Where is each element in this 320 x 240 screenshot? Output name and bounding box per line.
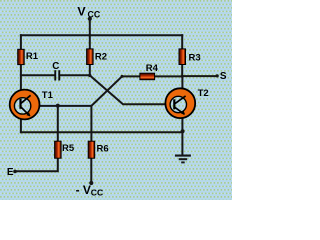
svg-text:R6: R6: [97, 144, 109, 155]
wire: node B diagonal to T1 base line: [40, 76, 122, 106]
resistor R2: [87, 49, 94, 65]
VCC label: [77, 5, 100, 20]
-VCC label: [76, 183, 104, 198]
wire: T2 collector lead: [181, 76, 183, 88]
wire: VCC stub down to top rail: [89, 19, 91, 35]
junction node B (R4 / diagonal): [121, 75, 124, 78]
junction node A (R2 / C / diagonal): [88, 74, 91, 77]
wire: R1 top lead: [20, 35, 22, 49]
wire: R2 top lead: [89, 35, 91, 49]
ground: [175, 156, 191, 163]
svg-text:T1: T1: [42, 90, 54, 101]
wire: R6 top lead from base corner: [90, 106, 92, 141]
svg-text:R2: R2: [95, 52, 107, 63]
wire: R5 bottom lead: [15, 158, 58, 171]
svg-text:R1: R1: [26, 51, 39, 62]
junction: R5 on T1 base line: [56, 104, 60, 108]
resistor R1: [18, 49, 25, 64]
terminal E dot: [13, 170, 17, 174]
svg-text:V: V: [77, 5, 86, 19]
svg-text:T2: T2: [198, 88, 209, 99]
wire: node A diagonal to T2 base line: [90, 75, 166, 104]
svg-text:S: S: [220, 71, 227, 82]
wire: T2 emitter lead to ground: [181, 119, 183, 155]
wire: R4 right lead to collector node of T2: [155, 75, 183, 77]
resistor R5: [55, 141, 62, 158]
wire: output line to S: [182, 75, 216, 77]
capacitor C: [54, 70, 60, 80]
resistor R4: [140, 73, 155, 80]
wire: R5 top lead from T1 base line: [57, 106, 59, 141]
svg-text:E: E: [7, 167, 14, 178]
svg-text:R4: R4: [146, 63, 159, 74]
wire: top VCC rail: [21, 34, 182, 36]
resistor R6: [88, 141, 95, 158]
wire: R6 bottom lead to -VCC: [90, 158, 92, 183]
VCC terminal dot: [88, 17, 92, 21]
wire: R1 bottom lead to T1 collector: [20, 65, 22, 90]
svg-text:R5: R5: [62, 143, 75, 154]
background halftone: [0, 0, 232, 200]
svg-text:CC: CC: [88, 9, 101, 19]
wire: R3 bottom lead: [181, 65, 183, 77]
junction: emitter rail at T2 emitter: [181, 129, 185, 133]
svg-text:CC: CC: [91, 188, 103, 198]
svg-text:R3: R3: [189, 52, 201, 63]
svg-text:C: C: [52, 61, 59, 72]
resistor R3: [179, 49, 186, 65]
wire: R3 top lead: [181, 35, 183, 49]
wire: R4 left lead to node B: [122, 75, 140, 77]
terminal S dot: [216, 74, 219, 77]
wire: capacitor left lead from R1 line: [21, 74, 54, 76]
wire: emitter/ground rail: [21, 131, 183, 133]
svg-text:- V: - V: [76, 183, 91, 197]
wire: R2 bottom lead to node A: [89, 65, 91, 76]
wire: capacitor right lead to node A: [60, 74, 89, 76]
wire: T1 emitter lead down: [20, 120, 22, 132]
transistor T1: [10, 90, 40, 120]
-VCC terminal dot: [89, 181, 93, 185]
transistor T2: [165, 88, 195, 118]
junction: collector node of T2 (R3/R4/S): [181, 75, 184, 78]
